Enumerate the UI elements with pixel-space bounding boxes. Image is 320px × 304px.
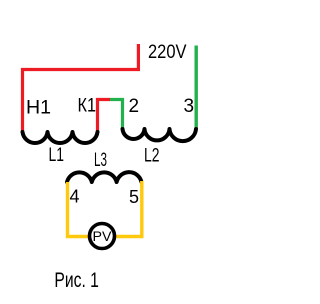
- wire: green supply wire to terminal 3: [194, 46, 197, 129]
- svg-text:L1: L1: [49, 145, 65, 166]
- inductor L3 coil (humps up): [67, 172, 142, 182]
- svg-text:4: 4: [70, 187, 80, 207]
- svg-text:3: 3: [184, 96, 195, 117]
- wire: red supply wire from 220V down-left to H1 terminal: [23, 44, 139, 132]
- svg-text:PV: PV: [93, 228, 113, 244]
- svg-text:К1: К1: [78, 96, 97, 117]
- svg-text:220V: 220V: [148, 41, 187, 63]
- inductor L2 coil: [123, 129, 197, 141]
- wire: red jumper from K1 terminal up to bridge: [98, 100, 111, 132]
- svg-text:2: 2: [129, 96, 140, 117]
- svg-text:Н1: Н1: [26, 98, 51, 119]
- svg-text:L2: L2: [144, 146, 160, 167]
- svg-text:5: 5: [129, 187, 139, 207]
- voltmeter PV: [90, 224, 115, 249]
- inductor L1 coil: [23, 132, 98, 143]
- wire: yellow loop from terminal 4 through PV to terminal 5: [68, 181, 142, 237]
- svg-text:L3: L3: [94, 150, 107, 171]
- svg-text:Рис. 1: Рис. 1: [54, 269, 99, 292]
- wire: green jumper from bridge down to terminal 2: [110, 100, 123, 130]
